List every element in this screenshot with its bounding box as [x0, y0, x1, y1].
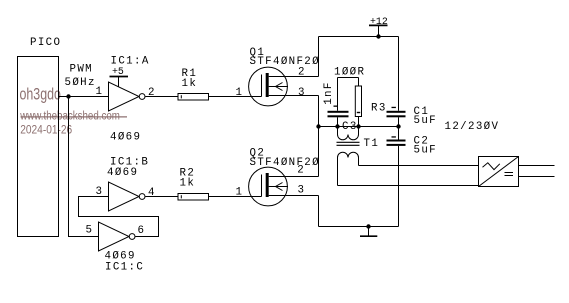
- svg-text:6: 6: [138, 225, 146, 237]
- op-amp U IC1:A inverter: [109, 82, 146, 111]
- node +12 junction: [376, 34, 380, 38]
- node C3 junction: [335, 124, 339, 128]
- wire converter output top: [519, 165, 555, 167]
- svg-text:4: 4: [148, 187, 156, 199]
- svg-text:1: 1: [236, 187, 244, 199]
- wire converter output bottom: [519, 176, 555, 178]
- svg-text:1k: 1k: [182, 78, 198, 90]
- svg-text:2: 2: [297, 165, 305, 177]
- svg-text:5uF: 5uF: [414, 115, 438, 127]
- wire feedback IC1:C out to IC1:B in: [79, 197, 159, 237]
- wire secondary bottom to converter: [338, 185, 479, 187]
- svg-text:+5: +5: [112, 66, 124, 77]
- wire Q2 source down to ground rail: [318, 196, 320, 227]
- wire Q1 drain up to +12 rail: [318, 37, 320, 77]
- svg-text:1: 1: [96, 86, 104, 98]
- svg-text:oh3gdo: oh3gdo: [20, 86, 61, 104]
- node ground junction: [366, 224, 370, 228]
- svg-text:1ØØR: 1ØØR: [334, 66, 365, 78]
- svg-text:STF4ØNF2Ø: STF4ØNF2Ø: [250, 157, 320, 169]
- PICO box: [18, 57, 59, 237]
- wire PWM branch down to IC1:C: [69, 97, 99, 237]
- wire secondary top to converter: [359, 165, 479, 167]
- resistor R1: [178, 94, 209, 101]
- svg-text:5uF: 5uF: [414, 145, 438, 157]
- svg-text:5: 5: [86, 225, 94, 237]
- svg-text:www.thebackshed.com: www.thebackshed.com: [19, 110, 120, 123]
- wire PICO to IC1:A input: [59, 96, 109, 98]
- wire IC1:B out to R2: [146, 196, 179, 198]
- svg-text:3: 3: [298, 185, 306, 197]
- svg-text:12/23ØV: 12/23ØV: [445, 121, 500, 133]
- svg-text:T1: T1: [364, 138, 380, 150]
- svg-text:2024-01-26: 2024-01-26: [20, 124, 72, 137]
- node C1 junction: [396, 124, 400, 128]
- wire R2 to Q2 gate: [209, 196, 262, 198]
- power +5: [110, 66, 129, 87]
- node R3 junction: [356, 124, 360, 128]
- svg-text:5ØHz: 5ØHz: [65, 77, 96, 89]
- resistor R3: [355, 78, 361, 127]
- svg-text:IC1:C: IC1:C: [105, 261, 144, 273]
- wire R1 to Q1 gate: [209, 96, 262, 98]
- op-amp U IC1:C inverter: [99, 222, 136, 251]
- svg-text:STF4ØNF2Ø: STF4ØNF2Ø: [250, 56, 320, 68]
- svg-text:4Ø69: 4Ø69: [107, 167, 138, 179]
- svg-text:R3: R3: [371, 102, 387, 114]
- capacitor C2: [387, 127, 406, 227]
- watermark oh3gdo: [19, 86, 127, 137]
- node PWM junction: [66, 94, 70, 98]
- power +12: [369, 16, 388, 37]
- svg-text:PICO: PICO: [30, 37, 61, 49]
- svg-text:4Ø69: 4Ø69: [110, 132, 141, 144]
- wire Q2 drain up to mid rail: [318, 127, 320, 177]
- wire IC1:A out to R1: [146, 96, 179, 98]
- transistor Q1: [249, 67, 319, 106]
- svg-text:3: 3: [298, 87, 306, 99]
- svg-text:2: 2: [298, 67, 306, 79]
- wire mid rail: [319, 126, 399, 128]
- wire C3/R3 top link: [338, 77, 359, 79]
- svg-text:1k: 1k: [180, 177, 196, 189]
- capacitor C3: [328, 78, 349, 127]
- ground: [360, 227, 377, 237]
- node mid rail left: [316, 124, 320, 128]
- wire ground rail: [319, 226, 399, 228]
- wire Q1 source down to mid rail: [318, 96, 320, 127]
- converter box ~/=: [479, 157, 519, 187]
- op-amp U IC1:B inverter: [109, 182, 146, 211]
- resistor R2: [178, 194, 209, 201]
- svg-text:1nF: 1nF: [323, 81, 335, 105]
- capacitor C1: [387, 37, 406, 127]
- transistor Q2: [249, 167, 319, 206]
- svg-text:PWM: PWM: [70, 64, 94, 76]
- svg-text:2: 2: [148, 87, 156, 99]
- svg-text:1: 1: [236, 87, 244, 99]
- transformer T1: [337, 127, 360, 186]
- svg-text:C3: C3: [342, 121, 358, 133]
- wire +12 rail: [319, 36, 399, 38]
